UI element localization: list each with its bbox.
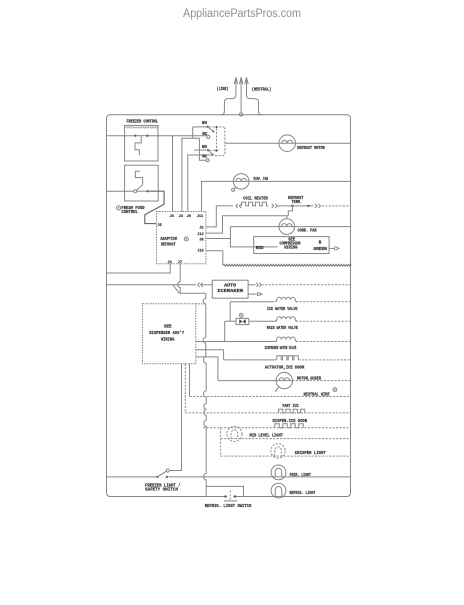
wire: auger motor row: [218, 380, 292, 382]
wire: pole 2 common dashed: [209, 149, 219, 151]
resistor: dispenser ice door heater: [275, 424, 303, 428]
wire: actuator feed from dispenser box: [196, 350, 224, 360]
svg-text:RED: RED: [256, 246, 264, 251]
wire: dispenser box top stub to bus: [196, 303, 206, 305]
wire: crisper light row: [221, 455, 351, 457]
svg-text:CRISPER LIGHT: CRISPER LIGHT: [295, 451, 326, 456]
switch: freezer thermostat staircase: [135, 136, 141, 156]
wire: J4 line to left edge: [106, 264, 170, 273]
wire: LINE supply lead with arrow: [221, 77, 238, 115]
wire: part ice row: [185, 412, 351, 414]
fuse: water valve thermal fuse: [236, 318, 249, 324]
wire: auger motor row right dashed: [292, 380, 351, 382]
node: freezer control hatch strip: [125, 127, 157, 128]
node: defrost term junction dot right: [307, 205, 309, 207]
node: NC2 contact circle: [206, 159, 209, 162]
wire: actuator row: [224, 359, 276, 361]
svg-text:DISPENSER WATER VALVE: DISPENSER WATER VALVE: [265, 346, 297, 351]
svg-text:(LINE): (LINE): [217, 87, 229, 92]
node: pole 1 link dot: [215, 126, 217, 128]
svg-text:PART ICE: PART ICE: [283, 404, 299, 409]
wire: main water valve row right: [296, 320, 351, 322]
svg-text:J3: J3: [179, 215, 184, 219]
switch: freezer control box: [125, 125, 158, 161]
wire: hatched shield line to right edge: [223, 264, 351, 266]
wire: freezer light row: [168, 476, 351, 478]
node: pole 2 pivot dot: [207, 149, 209, 151]
wire: center supply lead with arrow and terminal circle: [239, 77, 242, 116]
switch: refrig light push switch: [224, 491, 237, 501]
inductor: main water valve coil: [275, 317, 297, 322]
switch: fresh food switch arm: [137, 185, 143, 190]
svg-text:AppliancePartsPros.com: AppliancePartsPros.com: [183, 8, 301, 20]
wire: dispenser box drop dashed: [184, 364, 186, 413]
wire: safety switch throw link: [170, 470, 182, 472]
wire: main water valve row: [249, 320, 276, 322]
wire: mid level light row: [221, 438, 351, 440]
svg-text:J12: J12: [197, 233, 203, 237]
svg-text:NEUTRAL WIRE: NEUTRAL WIRE: [304, 392, 330, 397]
node: green output stub: [329, 247, 339, 251]
wire: main water valve row left: [225, 320, 236, 322]
wire: lamp row link dashed: [220, 428, 222, 456]
svg-text:NO: NO: [202, 121, 207, 126]
wire: J12 sensor line: [206, 216, 288, 233]
wire: heater row to defrost terminator: [278, 205, 314, 207]
switch: fresh food control box: [125, 165, 159, 201]
svg-text:DISPEN.ICE DOOR: DISPEN.ICE DOOR: [273, 419, 308, 424]
motor: auger motor circle: [276, 372, 292, 388]
node: heater right connector chevrons: [272, 204, 278, 208]
wire: cabinet outline: [107, 115, 351, 497]
wire: pole 1 common dashed: [209, 126, 224, 128]
node: note mark 1 circled: [117, 206, 121, 210]
wire: dispenser water valve row: [196, 341, 277, 343]
wire: actuator row right: [299, 359, 352, 361]
svg-text:J10: J10: [197, 250, 203, 254]
wire: auger feed from dispenser box: [196, 357, 218, 380]
wire: icemaker output dashed to right edge: [262, 284, 352, 286]
lamp: refrigerator light: [271, 483, 286, 498]
svg-text:MID LEVEL LIGHT: MID LEVEL LIGHT: [250, 433, 284, 438]
svg-text:B: B: [319, 241, 322, 246]
wire: left supply bus with hop bumps: [203, 293, 206, 496]
switch: fresh food thermostat staircase: [135, 171, 142, 185]
svg-text:CONTROL: CONTROL: [121, 210, 138, 215]
svg-text:DEFROST: DEFROST: [161, 242, 176, 247]
wire: freezer control feed from left edge: [106, 135, 134, 137]
node: defrost term junction dot left: [291, 205, 293, 207]
resistor: part ice heater: [279, 409, 305, 413]
svg-text:SEE: SEE: [164, 325, 172, 330]
svg-text:WIRING: WIRING: [161, 337, 175, 342]
svg-text:REFRIG. LIGHT: REFRIG. LIGHT: [290, 491, 316, 496]
wire: J2 riser to heater lead: [206, 206, 216, 227]
svg-text:FRZR. LIGHT: FRZR. LIGHT: [290, 473, 312, 478]
svg-text:J6: J6: [170, 215, 174, 219]
svg-text:DISPENSER ASS'Y: DISPENSER ASS'Y: [149, 331, 184, 336]
node: ice dispenser assy box: [142, 304, 195, 364]
wire: icemaker feed lead into box: [202, 284, 213, 286]
svg-text:J11: J11: [197, 215, 204, 219]
wire: J10 line down to shield: [206, 251, 223, 265]
wire: heater row left lead: [216, 205, 233, 207]
svg-text:ICE WATER VALVE: ICE WATER VALVE: [267, 307, 298, 312]
node: pole 2 link dot: [215, 150, 217, 152]
svg-text:TERM.: TERM.: [292, 200, 303, 205]
wire: dispenser box drop to neutral: [189, 364, 191, 397]
node: auger motor arrow: [275, 387, 279, 392]
wire: fresh food output to J5: [145, 191, 164, 223]
svg-text:ICEMAKER: ICEMAKER: [217, 289, 243, 294]
svg-text:AUTO: AUTO: [224, 284, 236, 289]
wire: J9 riser to switch arm contact: [188, 155, 213, 212]
wire: refrig light jog: [206, 486, 243, 496]
node: icemaker output chevrons: [256, 283, 261, 287]
wire: drop to compressor red lead: [230, 227, 277, 247]
wire: defrost switch NO2 line: [194, 149, 207, 151]
svg-text:J9: J9: [187, 215, 191, 219]
resistor: defrost coil heater: [242, 202, 268, 206]
motor: defrost motor circle: [279, 135, 296, 152]
inductor: dispenser water valve coil: [275, 337, 297, 341]
wire: dispenser ice door row: [203, 427, 351, 429]
switch: pole 2 arm: [208, 150, 214, 156]
svg-text:GREEN: GREEN: [313, 247, 327, 252]
svg-text:COIL HEATER: COIL HEATER: [243, 197, 268, 202]
wire: J3 riser: [182, 138, 206, 211]
wire: fresh food feed from left edge: [106, 190, 134, 192]
node: auto icemaker box: [212, 280, 248, 298]
node: evap fan ground stub: [232, 187, 237, 191]
switch: pole 1 arm: [208, 127, 215, 133]
wire: freezer control contact bridge: [137, 135, 147, 137]
svg-text:J5: J5: [157, 224, 162, 228]
svg-text:MOTOR,AUGER: MOTOR,AUGER: [297, 377, 321, 382]
svg-text:WIRING: WIRING: [284, 246, 298, 251]
node: compressor wiring box: [254, 237, 329, 254]
svg-text:COND. FAN: COND. FAN: [298, 228, 317, 233]
wire: mechanical link between poles: [216, 128, 218, 149]
wire: ice water valve row right: [296, 301, 351, 303]
wire: heater row to right edge: [322, 205, 351, 207]
svg-text:ACTUATOR,ICE DOOR: ACTUATOR,ICE DOOR: [265, 365, 305, 370]
wire: dispenser box drop to safety switch: [181, 364, 183, 471]
wire: J6 riser from freezer control line: [172, 136, 174, 212]
svg-text:(NEUTRAL): (NEUTRAL): [252, 88, 271, 93]
lamp: mid level light: [227, 426, 242, 441]
node: note mark circled neutral: [333, 388, 337, 392]
node: note mark circled on board: [184, 237, 188, 241]
node: pole 1 pivot dot: [207, 126, 209, 128]
switch: freezer light safety switch: [156, 469, 169, 478]
wire: cond fan top tick: [286, 216, 288, 219]
node: heater left connector chevrons: [236, 204, 242, 208]
wire: cond fan row: [230, 226, 351, 228]
wire: J11 riser and evap fan feed: [202, 181, 352, 211]
wire: NEUTRAL supply lead with arrow: [245, 77, 262, 115]
svg-text:SAFETY SWITCH: SAFETY SWITCH: [145, 488, 178, 493]
svg-text:NO: NO: [202, 145, 207, 150]
wire: safety switch feed from left edge: [106, 476, 156, 478]
svg-text:EVAP. FAN: EVAP. FAN: [254, 177, 269, 182]
svg-text:J8: J8: [199, 239, 204, 243]
wire: J3 riser link up to switch NO line: [192, 127, 194, 138]
wire: fresh food contact bridge: [137, 190, 146, 192]
node: icemaker test stub: [248, 292, 262, 296]
wire: icemaker output lead: [248, 284, 255, 286]
wire: switch assembly boundary: [214, 127, 225, 155]
node: freezer control contact left: [134, 135, 136, 137]
resistor: ice door actuator coil: [277, 356, 298, 360]
wire: J7 drop with hop to bus: [178, 264, 181, 294]
motor: evaporator fan circle: [233, 174, 249, 190]
lamp: freezer light: [271, 465, 286, 480]
wire: defrost switch NO1 line: [193, 126, 207, 128]
thermostat: defrost terminator jog: [288, 206, 292, 216]
wire: J8 line: [206, 238, 231, 240]
node: icemaker feed chevrons: [198, 283, 203, 287]
node: freezer control contact right: [146, 135, 148, 137]
lamp: crisper light: [271, 444, 285, 458]
node: NC1 contact circle: [207, 135, 210, 138]
svg-text:FREEZER CONTROL: FREEZER CONTROL: [127, 121, 159, 125]
node: heater right exit chevrons: [315, 204, 321, 208]
wire: icemaker feed from left edge: [106, 284, 196, 286]
node: fresh food throw contact: [146, 190, 148, 192]
wire: ice water valve row: [230, 301, 274, 303]
wire: branch diagonal to supply bus: [173, 285, 206, 294]
svg-text:REFRIG. LIGHT SWITCH: REFRIG. LIGHT SWITCH: [205, 504, 252, 509]
node: fresh food pole contact: [134, 190, 137, 193]
svg-text:J2: J2: [199, 227, 203, 231]
motor: condenser fan circle: [279, 219, 295, 235]
svg-text:DEFROST MOTOR: DEFROST MOTOR: [297, 146, 325, 151]
wire: dispenser water valve row right: [296, 341, 351, 343]
wire: freezer control output to defrost switch NC: [149, 135, 207, 137]
wire: row link vertical 2: [224, 321, 226, 341]
wire: row link vertical: [229, 302, 231, 321]
node: note mark circled on fuse: [239, 313, 243, 318]
op-amp: adaptive defrost control box: [157, 212, 206, 264]
wire: neutral wire row: [190, 396, 352, 398]
inductor: ice water valve coil: [275, 297, 297, 302]
svg-text:MAIN WATER VALVE: MAIN WATER VALVE: [267, 326, 298, 331]
wire: defrost motor feed: [225, 142, 351, 144]
